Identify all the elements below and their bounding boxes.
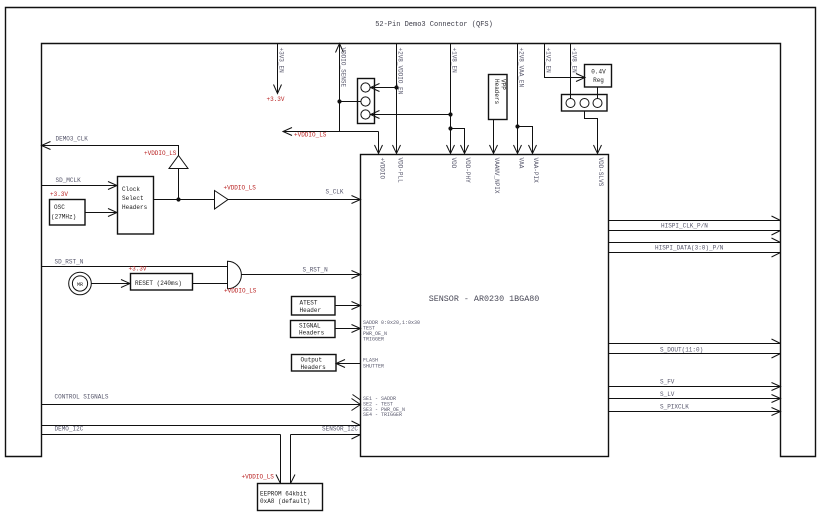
svg-text:0.4V: 0.4V [591,69,606,76]
svg-text:VDD: VDD [450,158,457,169]
junction +2V8_VAA_EN [515,124,519,128]
svg-text:SENSOR_I2C: SENSOR_I2C [322,426,358,433]
header JP2 VPP [489,75,508,120]
wire S_PIXCLK [609,408,781,416]
wire atest [335,302,361,310]
svg-text:Select: Select [122,195,144,202]
junction clk [176,197,180,201]
wire +1V8_EN [371,44,469,154]
svg-text:+VDDIO_LS: +VDDIO_LS [242,474,275,481]
header JP3 SLVS select [562,95,608,112]
svg-text:SHUTTER: SHUTTER [363,364,384,370]
svg-text:+VDDIO_LS: +VDDIO_LS [294,132,327,139]
svg-text:VDD-PLL: VDD-PLL [397,158,404,184]
buffer T2 triangle [215,191,229,210]
svg-text:ATEST: ATEST [300,300,318,307]
wire DEMO_I2C 1 [42,421,361,426]
junction +1V8_EN a [448,112,452,116]
svg-text:VDD-PHY: VDD-PHY [464,158,471,184]
wire S_RST_N [241,271,360,279]
header JP7 Output [292,355,337,372]
wire MR to reset [92,280,131,288]
wire regulator to header [597,87,599,99]
svg-text:Header: Header [300,307,322,314]
wire SD_MCLK [42,182,118,190]
switch SW1 MR [69,272,92,295]
wire +VDDIO_LS rail [283,128,383,154]
svg-text:+1V8_EN: +1V8_EN [451,48,458,74]
svg-text:+3V3_EN: +3V3_EN [278,48,285,74]
svg-text:+VDDIO: +VDDIO [379,158,386,180]
wire HISPI_CLK_P [609,216,781,221]
svg-text:SE4 - TRIGGER: SE4 - TRIGGER [363,412,402,418]
wire S_LV [609,395,781,403]
wire SD_RST_N [42,266,228,268]
svg-text:SD_RST_N: SD_RST_N [55,259,84,266]
header JP6 SIGNAL [291,321,336,338]
wire i2c drop scl [291,435,296,484]
wire signal [335,325,361,333]
svg-text:Reg: Reg [593,77,604,84]
wire reset out [193,283,228,285]
wire +2V8_VDDIO_EN [371,44,401,154]
svg-text:S_CLK: S_CLK [326,189,344,196]
svg-text:MR: MR [77,282,83,288]
wire osc out [85,209,117,217]
wire HISPI_DATA_P [609,238,781,243]
svg-text:S_LV: S_LV [660,391,675,398]
svg-text:EEPROM 64kbit: EEPROM 64kbit [260,491,307,498]
svg-text:+3.3V: +3.3V [129,266,147,273]
regulator U2 0.4V [585,65,612,88]
svg-text:52-Pin Demo3 Connector (QFS): 52-Pin Demo3 Connector (QFS) [375,21,493,29]
wire header to VDD-SLVS [585,111,602,154]
svg-text:DEMO3_CLK: DEMO3_CLK [56,136,89,143]
svg-text:OSC: OSC [54,204,65,211]
svg-text:+VDDIO_LS: +VDDIO_LS [144,150,177,157]
svg-text:RESET (240ms): RESET (240ms) [135,280,182,287]
svg-text:SD_MCLK: SD_MCLK [56,177,82,184]
svg-text:SENSOR - AR0230 1BGA80: SENSOR - AR0230 1BGA80 [429,294,540,304]
svg-text:DEMO_I2C: DEMO_I2C [55,426,84,433]
svg-text:VDD-SLVS: VDD-SLVS [597,158,604,187]
svg-text:Headers: Headers [493,79,500,105]
wire VDDIO_SENSE [336,44,361,132]
svg-text:+2V8_VAA_EN: +2V8_VAA_EN [518,48,525,88]
svg-text:+VDDIO_LS: +VDDIO_LS [224,185,257,192]
svg-text:VAA-PIX: VAA-PIX [532,158,539,184]
clock select headers JP4 [118,177,154,235]
sensor U1 box [361,155,609,457]
wire +1V2_EN to regulator [545,44,586,82]
oscillator Y1 [50,200,86,226]
svg-text:CONTROL SIGNALS: CONTROL SIGNALS [55,394,109,401]
header JP1 3-pin VDDIO select [358,79,375,124]
svg-text:Headers: Headers [301,364,327,371]
svg-text:+3.3V: +3.3V [50,191,68,198]
svg-text:S_PIXCLK: S_PIXCLK [660,404,689,411]
svg-text:+1V2_EN: +1V2_EN [545,48,552,74]
wire +2V8_VAA_EN [514,44,537,154]
reset supervisor U3 [131,274,193,291]
svg-text:Headers: Headers [299,330,325,337]
wire +3V3_EN [274,44,282,94]
svg-text:+3.3V: +3.3V [267,96,285,103]
svg-text:HISPI_DATA(3:0)_P/N: HISPI_DATA(3:0)_P/N [655,245,724,252]
wire i2c drop sda [276,435,281,484]
svg-text:S_RST_N: S_RST_N [303,267,329,274]
wire CONTROL SIGNALS [42,395,361,411]
svg-text:VAA: VAA [518,158,525,169]
svg-text:VDDIO_SENSE: VDDIO_SENSE [340,48,347,88]
svg-text:+1V8_EN: +1V8_EN [571,48,578,74]
svg-text:Headers: Headers [122,204,148,211]
wire DEMO_I2C 2 [42,435,361,440]
svg-text:SIGNAL: SIGNAL [299,323,321,330]
wire HISPI_CLK_N [609,231,781,236]
svg-text:TRIGGER: TRIGGER [363,337,384,343]
wire VPP to sensor [490,120,498,154]
wire S_DOUT a [609,339,781,344]
svg-text:Output: Output [301,357,323,364]
svg-text:Clock: Clock [122,186,140,193]
svg-text:0xA8 (default): 0xA8 (default) [260,498,310,505]
svg-text:S_FV: S_FV [660,379,675,386]
wire +1V8_EN b [570,44,572,99]
header JP5 ATEST [292,297,336,316]
gate G1 wired-or [228,261,242,289]
svg-text:+VDDIO_LS: +VDDIO_LS [224,288,257,295]
level shifter T1 triangle [169,156,188,200]
svg-text:(27MHz): (27MHz) [51,214,76,221]
junction +1V8_EN b [448,126,452,130]
wire S_FV [609,383,781,391]
wire DEMO3_CLK [42,142,179,156]
eeprom U4 [258,484,323,511]
svg-text:HISPI_CLK_P/N: HISPI_CLK_P/N [661,223,708,230]
junction VDDIO_SENSE [337,99,341,103]
svg-text:S_DOUT(11:0): S_DOUT(11:0) [660,347,703,354]
wire S_DOUT b [609,354,781,359]
svg-text:+2V8_VDDIO_EN: +2V8_VDDIO_EN [397,48,404,95]
svg-text:VAANV_NPIX: VAANV_NPIX [493,158,500,194]
wire S_CLK [154,196,361,204]
wire output headers [336,360,361,368]
wire HISPI_DATA_N [609,253,781,258]
junction +2V8_VDDIO_EN [394,85,398,89]
